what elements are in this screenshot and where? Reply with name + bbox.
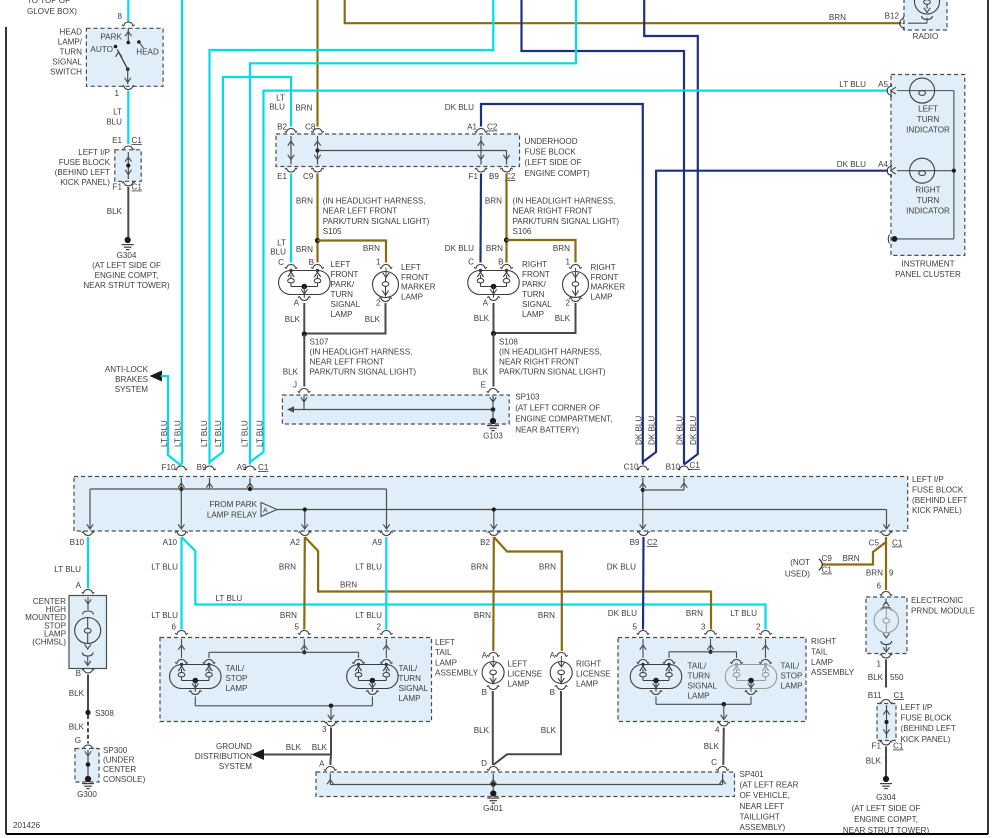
note SP103 location (515, 393, 612, 435)
labels C9 C1 BRN (822, 554, 860, 575)
svg-text:DK BLU: DK BLU (648, 416, 657, 445)
svg-text:B10: B10 (666, 463, 681, 472)
svg-text:1: 1 (565, 258, 570, 267)
ground G304 (83, 237, 170, 290)
svg-text:3: 3 (322, 725, 327, 734)
wire LT BLU underhood B2 branch (210, 77, 292, 462)
note S107 location (310, 338, 417, 377)
note not used (785, 558, 810, 579)
svg-text:6: 6 (876, 582, 881, 591)
ground G300 (77, 776, 97, 799)
svg-text:LT BLU: LT BLU (54, 565, 81, 574)
note S106 location (513, 197, 620, 237)
labels BLK at pin3 (286, 743, 328, 752)
svg-text:B: B (498, 258, 503, 267)
svg-text:DK BLU: DK BLU (689, 416, 698, 445)
svg-text:TO TOP OF: TO TOP OF (27, 0, 70, 5)
svg-text:BRN: BRN (296, 197, 313, 206)
wire LT BLU to ABS from F10 (161, 376, 181, 466)
svg-text:6: 6 (171, 623, 176, 632)
svg-text:A: A (76, 581, 82, 590)
right tail/stop lamp (725, 662, 802, 695)
svg-text:C: C (711, 758, 717, 767)
svg-text:BRN: BRN (363, 244, 380, 253)
svg-text:NEAR STRUT TOWER): NEAR STRUT TOWER) (83, 281, 170, 290)
svg-text:BLK: BLK (286, 743, 302, 752)
arrow to ground distribution system (252, 749, 265, 760)
wire DK BLU F1 to right park lamp pin C (479, 174, 482, 263)
svg-text:INDICATOR: INDICATOR (906, 126, 950, 135)
svg-text:LAMP/: LAMP/ (58, 38, 83, 47)
svg-text:NEAR LEFT FRONT: NEAR LEFT FRONT (310, 358, 385, 367)
svg-text:TAIL: TAIL (435, 648, 452, 657)
svg-text:STOP: STOP (781, 672, 803, 681)
svg-text:FRONT: FRONT (331, 270, 359, 279)
svg-text:GLOVE BOX): GLOVE BOX) (27, 7, 77, 16)
svg-text:TAILLIGHT: TAILLIGHT (740, 812, 780, 821)
svg-text:ELECTRONIC: ELECTRONIC (911, 596, 963, 605)
wire BLK marker 2 to splice S107 (304, 303, 385, 334)
splice S106 (504, 237, 509, 242)
wire BLK S107 to SP103 pin J (303, 334, 305, 387)
svg-text:GROUND: GROUND (216, 742, 252, 751)
svg-text:BRN: BRN (829, 13, 846, 22)
wire DK BLU from top, jog to B10 of I/P fuse block (644, 0, 698, 465)
svg-text:(IN HEADLIGHT HARNESS,: (IN HEADLIGHT HARNESS, (513, 197, 616, 206)
svg-text:BRAKES: BRAKES (115, 375, 148, 384)
center high mounted stop lamp CHMSL (25, 596, 106, 669)
svg-text:BRN: BRN (280, 611, 297, 620)
wire BRN S106 to right marker lamp pin 1 (507, 240, 576, 263)
left license lamp (482, 656, 543, 697)
svg-text:G304: G304 (117, 251, 137, 260)
wire DK BLU underhood A1 to C10 (481, 104, 643, 465)
svg-text:HEAD: HEAD (136, 48, 159, 57)
labels LT BLU vertical group (160, 420, 265, 447)
svg-text:LAMP RELAY: LAMP RELAY (207, 511, 258, 520)
right turn indicator lamp (897, 158, 954, 215)
svg-text:(NOT: (NOT (790, 558, 810, 567)
svg-text:SWITCH: SWITCH (50, 68, 82, 77)
svg-text:BRN: BRN (843, 554, 860, 563)
svg-text:LEFT: LEFT (331, 260, 351, 269)
left tail/stop lamp (170, 663, 248, 695)
wire BRN S105 to left marker lamp pin 1 (318, 241, 387, 263)
ground G401 (483, 790, 503, 813)
svg-text:SP401: SP401 (740, 770, 765, 779)
svg-text:A: A (483, 299, 489, 308)
svg-text:C1: C1 (132, 183, 143, 192)
svg-text:TURN: TURN (331, 290, 354, 299)
svg-text:(UNDER: (UNDER (103, 756, 135, 765)
svg-text:ENGINE COMPT,: ENGINE COMPT, (854, 815, 918, 824)
svg-text:BRN: BRN (866, 569, 883, 578)
svg-text:BLK: BLK (473, 368, 489, 377)
svg-text:BRN: BRN (295, 104, 312, 113)
svg-text:ASSEMBLY: ASSEMBLY (811, 668, 855, 677)
wire BLK 550 PRNDL to B11 (885, 660, 887, 688)
svg-text:G103: G103 (483, 432, 503, 441)
svg-text:G: G (75, 736, 81, 745)
svg-text:INSTRUMENT: INSTRUMENT (901, 260, 954, 269)
svg-text:TURN: TURN (917, 196, 940, 205)
svg-text:G300: G300 (77, 790, 97, 799)
svg-text:USED): USED) (785, 570, 810, 579)
svg-text:LAMP: LAMP (435, 658, 457, 667)
svg-text:RADIO: RADIO (913, 32, 939, 41)
svg-text:CENTER: CENTER (103, 765, 136, 774)
label LT BLU (106, 108, 122, 127)
svg-text:DK BLU: DK BLU (607, 563, 636, 572)
svg-text:RIGHT: RIGHT (522, 260, 547, 269)
svg-text:CONSOLE): CONSOLE) (103, 775, 146, 784)
svg-text:LAMP: LAMP (226, 684, 248, 693)
ground link to pin 4 (656, 697, 751, 720)
svg-text:BLK: BLK (541, 726, 557, 735)
pin 6 of PRNDL module (880, 592, 892, 596)
svg-text:NEAR RIGHT FRONT: NEAR RIGHT FRONT (513, 207, 593, 216)
left I/P fuse block (main) (74, 475, 967, 531)
svg-text:A4: A4 (878, 160, 888, 169)
left front park/turn signal lamp (279, 260, 361, 319)
wire BLK right lamp A to splice S108 (493, 303, 495, 334)
svg-text:RIGHT: RIGHT (915, 186, 940, 195)
svg-text:S308: S308 (95, 709, 114, 718)
svg-text:F10: F10 (162, 463, 176, 472)
svg-text:G304: G304 (876, 793, 896, 802)
svg-text:ASSEMBLY): ASSEMBLY) (740, 823, 786, 832)
connector F1/C1 lower (872, 741, 904, 750)
svg-text:A5: A5 (878, 80, 888, 89)
svg-text:201426: 201426 (13, 821, 41, 830)
pins A D C of SP401 (324, 767, 729, 771)
note SP401 location (740, 770, 799, 832)
svg-text:LT BLU: LT BLU (355, 563, 382, 572)
svg-text:F1: F1 (113, 183, 123, 192)
pins E1 C9 F1 B9 of underhood fuse block (285, 168, 513, 172)
wire DK BLU B9 to right tail pin 5 (642, 537, 645, 630)
svg-text:B2: B2 (480, 538, 490, 547)
wire LT BLU B10 to CHMSL (87, 537, 89, 589)
svg-text:FROM PARK: FROM PARK (209, 500, 257, 509)
svg-text:2: 2 (756, 623, 761, 632)
svg-text:LT BLU: LT BLU (151, 611, 178, 620)
wire BLK S308 to SP300 pin G (87, 715, 89, 744)
svg-text:TURN: TURN (522, 290, 545, 299)
svg-text:OF VEHICLE,: OF VEHICLE, (740, 791, 790, 800)
wire BRN from top to underhood C8 (316, 0, 318, 127)
labels above underhood fuse block (269, 94, 498, 132)
pin 8 of headlamp switch (117, 12, 134, 26)
svg-text:TURN: TURN (399, 674, 422, 683)
svg-text:LT BLU: LT BLU (256, 420, 265, 447)
svg-text:BLK: BLK (365, 315, 381, 324)
svg-text:LT BLU: LT BLU (160, 420, 169, 447)
svg-text:5: 5 (632, 623, 637, 632)
svg-text:MARKER: MARKER (591, 283, 626, 292)
wire BLK to ground distribution system (260, 754, 331, 756)
svg-text:LAMP: LAMP (399, 694, 421, 703)
labels below underhood fuse block (277, 172, 516, 181)
wire LT BLU from top to fuse block F10 (181, 0, 183, 465)
svg-text:D: D (481, 759, 487, 768)
svg-text:NEAR RIGHT FRONT: NEAR RIGHT FRONT (499, 358, 579, 367)
svg-text:BRN: BRN (340, 581, 357, 590)
svg-text:LT BLU: LT BLU (174, 420, 183, 447)
wire BLK pin 3 to SP401 pin A (329, 728, 332, 766)
note S108 location (499, 338, 606, 377)
svg-text:BRN: BRN (296, 245, 313, 254)
svg-text:LAMP: LAMP (401, 292, 423, 301)
wire LT BLU A10 jog to right tail pin 2 (182, 537, 766, 630)
svg-text:S106: S106 (513, 227, 532, 236)
left I/P fuse block (upper) (55, 148, 142, 187)
svg-text:PARK/TURN SIGNAL LIGHT): PARK/TURN SIGNAL LIGHT) (499, 368, 606, 377)
pin 1 of right front marker lamp (569, 265, 581, 269)
svg-text:LT BLU: LT BLU (214, 420, 223, 447)
top pins of I/P fuse block (175, 466, 690, 470)
underhood fuse block (276, 134, 590, 178)
pin A of CHMSL (76, 581, 95, 593)
pin J of SP103 (293, 381, 310, 393)
svg-text:E: E (481, 381, 487, 390)
svg-text:BLK: BLK (312, 743, 328, 752)
wire BLK right license to SP401 pin D (493, 691, 561, 765)
svg-text:9: 9 (889, 569, 894, 578)
svg-text:TAIL/: TAIL/ (688, 662, 707, 671)
svg-text:S105: S105 (323, 227, 342, 236)
svg-text:F1: F1 (469, 172, 479, 181)
svg-text:RIGHT: RIGHT (576, 660, 601, 669)
svg-text:BLK: BLK (868, 673, 884, 682)
svg-text:BLK: BLK (474, 726, 490, 735)
wire LT BLU A10 to left tail pin 6 (180, 537, 182, 630)
svg-text:3: 3 (701, 623, 706, 632)
svg-text:SIGNAL: SIGNAL (522, 300, 552, 309)
svg-text:C2: C2 (647, 538, 658, 547)
svg-text:BRN: BRN (474, 611, 491, 620)
svg-text:ENGINE COMPT,: ENGINE COMPT, (95, 271, 159, 280)
svg-text:550: 550 (890, 673, 904, 682)
note: wire to top of glove box (27, 0, 77, 16)
svg-text:SYSTEM: SYSTEM (115, 385, 149, 394)
svg-text:NEAR STRUT TOWER): NEAR STRUT TOWER) (843, 826, 930, 835)
svg-text:TAIL: TAIL (811, 647, 828, 656)
ground G304 right (843, 776, 930, 835)
pin B of CHMSL (76, 669, 95, 678)
wire BLK to ground G304 right (885, 747, 887, 777)
label right tail lamp assembly (811, 637, 855, 677)
svg-text:A2: A2 (290, 538, 300, 547)
svg-text:BLK: BLK (555, 314, 571, 323)
wire BRN stub C9 not used (822, 542, 886, 565)
svg-text:(LEFT SIDE OF: (LEFT SIDE OF (525, 158, 582, 167)
splice pack SP401 (316, 772, 735, 797)
pin A of right license lamp (550, 651, 568, 660)
pin E of SP103 (481, 381, 500, 393)
svg-text:DK BLU: DK BLU (635, 416, 644, 445)
svg-text:PRNDL MODULE: PRNDL MODULE (911, 607, 976, 616)
note SP300 location (103, 746, 146, 784)
wire DK BLU cluster A4 branch (643, 171, 888, 462)
label LT BLU at lamp C (270, 239, 286, 257)
svg-text:MARKER: MARKER (401, 283, 436, 292)
svg-text:(CHMSL): (CHMSL) (32, 638, 66, 647)
note S105 location (323, 197, 430, 237)
svg-text:(BEHIND LEFT: (BEHIND LEFT (901, 724, 956, 733)
svg-text:LT: LT (276, 94, 285, 103)
svg-text:FUSE BLOCK: FUSE BLOCK (59, 158, 111, 167)
svg-text:TAIL/: TAIL/ (226, 664, 245, 673)
svg-text:(BEHIND LEFT: (BEHIND LEFT (55, 168, 110, 177)
labels BRN 9 and 6 (866, 569, 894, 591)
svg-text:C: C (468, 258, 474, 267)
svg-text:C9: C9 (303, 172, 314, 181)
svg-text:TURN: TURN (917, 115, 940, 124)
right front park/turn signal lamp (468, 260, 552, 319)
svg-text:A: A (294, 299, 300, 308)
left I/P fuse block (lower) (877, 703, 956, 744)
svg-text:LEFT I/P: LEFT I/P (78, 148, 110, 157)
svg-text:ENGINE COMPARTMENT,: ENGINE COMPARTMENT, (515, 415, 612, 424)
svg-text:B: B (550, 688, 555, 697)
svg-text:5: 5 (294, 623, 299, 632)
connector E1/C1 (112, 136, 142, 150)
svg-text:B: B (76, 669, 81, 678)
svg-text:1: 1 (876, 660, 881, 669)
svg-text:NEAR LEFT FRONT: NEAR LEFT FRONT (323, 207, 398, 216)
pin A of left license lamp (482, 651, 500, 660)
svg-text:BLU: BLU (106, 118, 122, 127)
label left tail lamp assembly (435, 638, 479, 678)
svg-text:C1: C1 (690, 461, 701, 470)
connector F1/C1 (113, 182, 143, 192)
svg-text:NEAR BATTERY): NEAR BATTERY) (515, 426, 579, 435)
wire BLK CHMSL to splice S308 (87, 675, 89, 712)
connector B11/C1 (868, 691, 905, 703)
svg-text:LT BLU: LT BLU (200, 420, 209, 447)
svg-text:RIGHT: RIGHT (591, 263, 616, 272)
wire LT BLU to headlamp switch pin 8 (127, 0, 129, 22)
svg-text:LICENSE: LICENSE (576, 670, 611, 679)
svg-text:FRONT: FRONT (522, 270, 550, 279)
wire BRN from top to radio B12 (345, 0, 902, 23)
svg-text:FUSE BLOCK: FUSE BLOCK (901, 714, 953, 723)
splice pack SP300 (75, 749, 99, 783)
svg-text:KICK PANEL): KICK PANEL) (912, 506, 962, 515)
pins of left front park/turn lamp (285, 265, 324, 269)
svg-text:BRN: BRN (279, 563, 296, 572)
pin 4 of right tail lamp assembly (715, 722, 730, 734)
svg-text:TURN: TURN (60, 48, 83, 57)
label instrument panel cluster (895, 260, 961, 280)
svg-text:PARK: PARK (100, 33, 122, 42)
bottom pins of I/P fuse block (82, 532, 892, 536)
wire BLK S108 to SP103 pin E (493, 334, 495, 387)
svg-text:SP103: SP103 (515, 393, 540, 402)
svg-text:DK BLU: DK BLU (445, 103, 474, 112)
svg-text:C: C (278, 258, 284, 267)
svg-text:(BEHIND LEFT: (BEHIND LEFT (912, 496, 967, 505)
svg-text:BLU: BLU (269, 103, 285, 112)
svg-text:C10: C10 (624, 463, 639, 472)
svg-text:SIGNAL: SIGNAL (331, 300, 361, 309)
ground G103 (483, 418, 503, 441)
svg-text:B: B (309, 258, 314, 267)
wire BRN C5 to PRNDL pin 6 (885, 537, 887, 590)
svg-text:BLK: BLK (69, 689, 85, 698)
svg-text:(AT LEFT SIDE OF: (AT LEFT SIDE OF (92, 261, 161, 270)
wire BRN A2 to left tail pin 5 (303, 537, 306, 630)
wire BRN A2 jog to right tail pin 3 (305, 537, 711, 630)
svg-text:LEFT I/P: LEFT I/P (901, 703, 933, 712)
splice S108 (491, 331, 496, 336)
svg-text:ENGINE COMPT): ENGINE COMPT) (525, 169, 591, 178)
svg-text:C1: C1 (132, 136, 143, 145)
svg-text:S108: S108 (499, 338, 518, 347)
wire LT BLU E1 to left park lamp pin C (290, 174, 292, 263)
pin labels 5 3 2 of right tail lamp assembly (632, 623, 761, 632)
wire LT BLU from top, down to A9 of I/P fuse block (250, 0, 576, 465)
svg-text:TAIL/: TAIL/ (781, 662, 800, 671)
svg-text:LAMP: LAMP (591, 292, 613, 301)
svg-text:C1: C1 (822, 566, 833, 575)
svg-text:C1: C1 (894, 691, 905, 700)
svg-text:BLK: BLK (866, 757, 882, 766)
svg-text:INDICATOR: INDICATOR (906, 207, 950, 216)
pins B2 C8 A1 of underhood fuse block (285, 129, 487, 133)
labels BLK 550 (868, 673, 904, 682)
svg-text:LT: LT (113, 108, 122, 117)
pins 6 5 2 of left tail lamp assembly (175, 631, 392, 635)
svg-text:A9: A9 (237, 463, 247, 472)
svg-text:LEFT: LEFT (918, 105, 938, 114)
svg-text:A: A (482, 651, 488, 660)
svg-text:PARK/: PARK/ (331, 280, 355, 289)
left turn indicator lamp (897, 78, 954, 134)
bottom pin labels of I/P fuse block (70, 538, 903, 548)
labels DK BLU vertical group (635, 416, 699, 445)
connector pin B12 of radio (900, 17, 904, 30)
pin A4 (887, 164, 891, 177)
wire BLK pin 4 to SP401 pin C (722, 728, 725, 766)
svg-text:SP300: SP300 (103, 746, 128, 755)
svg-text:TAIL/: TAIL/ (399, 664, 418, 673)
svg-text:RIGHT: RIGHT (811, 637, 836, 646)
svg-text:LAMP: LAMP (331, 310, 353, 319)
svg-text:FUSE BLOCK: FUSE BLOCK (912, 485, 964, 494)
svg-text:2: 2 (565, 299, 570, 308)
svg-text:PARK/TURN SIGNAL LIGHT): PARK/TURN SIGNAL LIGHT) (323, 217, 430, 226)
labels wire colors above tail lamps (151, 609, 757, 620)
svg-text:C9: C9 (822, 554, 833, 563)
svg-text:TURN: TURN (688, 672, 711, 681)
svg-text:8: 8 (117, 12, 122, 21)
svg-text:BRN: BRN (538, 611, 555, 620)
pin labels A and D of SP401 (319, 759, 487, 769)
svg-text:BRN: BRN (686, 609, 703, 618)
svg-text:LAMP: LAMP (781, 682, 803, 691)
pin 1 of left front marker lamp (380, 265, 392, 269)
svg-text:LEFT: LEFT (435, 638, 455, 647)
splice S105 (315, 238, 320, 243)
svg-text:A10: A10 (163, 538, 178, 547)
right front marker lamp (563, 263, 626, 308)
svg-text:C2: C2 (487, 123, 498, 132)
svg-text:KICK PANEL): KICK PANEL) (901, 735, 951, 744)
svg-text:BLK: BLK (704, 742, 720, 751)
svg-text:KICK PANEL): KICK PANEL) (60, 178, 110, 187)
